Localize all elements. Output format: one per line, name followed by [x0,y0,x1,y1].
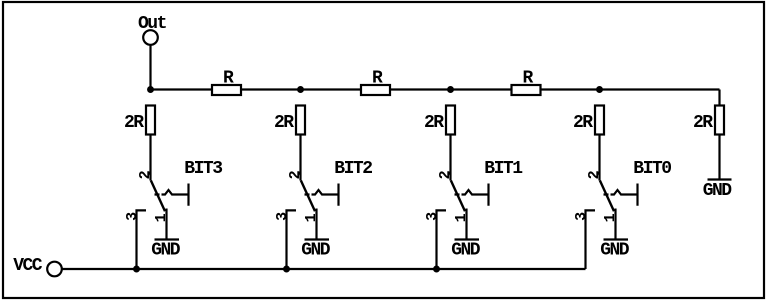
switch S3 (BIT1) lever and actuator [448,172,489,212]
svg-text:BIT2: BIT2 [334,159,372,179]
svg-text:2: 2 [586,170,603,179]
node A junction dot [147,86,154,93]
svg-text:GND: GND [600,240,630,260]
resistor 2R (column 2) [274,106,305,135]
wire VCC rail [62,268,586,270]
wire switch S3 pin 3 to VCC rail [437,210,447,269]
wire node to switch S4 pin 2 [598,136,600,181]
svg-text:3: 3 [124,212,141,221]
switch S4 (BIT0) lever and actuator [597,172,638,212]
svg-text:3: 3 [424,212,441,221]
wire node to switch S1 pin 2 [149,136,151,181]
svg-text:2R: 2R [693,113,713,133]
switch S2 (BIT2) lever and actuator [298,172,339,212]
ground (under S1) [151,240,181,261]
VCC rail junction dot 2 [283,266,290,273]
resistor 2R (column 5) [693,106,724,135]
port VCC [13,256,62,277]
ground (under S2) [301,240,331,261]
wire node to switch S3 pin 2 [449,136,451,181]
svg-text:BIT1: BIT1 [484,159,523,179]
svg-text:2R: 2R [274,113,294,133]
svg-text:Out: Out [138,14,167,34]
svg-text:2: 2 [137,170,154,179]
switch S1 (BIT3) lever and actuator [148,172,189,212]
svg-text:3: 3 [274,212,291,221]
svg-text:GND: GND [301,240,331,260]
svg-text:BIT0: BIT0 [633,159,671,179]
port Out [138,14,167,45]
svg-text:2R: 2R [573,113,593,133]
resistor 2R (column 3) [424,106,455,135]
svg-text:2R: 2R [424,113,444,133]
svg-text:2R: 2R [124,113,144,133]
wire switch S1 pin 3 to VCC rail [137,210,147,269]
resistor R (series 2) [361,69,390,96]
wire switch S4 pin 3 to VCC rail [586,210,596,269]
svg-text:VCC: VCC [13,256,43,276]
ground (terminator) [703,180,733,202]
ground (under S4) [600,240,630,261]
node D junction dot [596,86,603,93]
node B junction dot [297,86,304,93]
resistor 2R (column 4) [573,106,604,135]
wire top rail drop to terminator 2R [718,90,720,107]
wire top rail [151,88,720,90]
resistor R (series 3) [512,69,541,96]
svg-text:GND: GND [703,181,733,201]
resistor 2R (column 1) [124,106,155,135]
wire switch S4 pin 1 to ground [614,209,616,240]
svg-text:BIT3: BIT3 [184,159,222,179]
wire switch S1 pin 1 to ground [165,209,167,240]
svg-text:3: 3 [573,212,590,221]
resistor R (series 1) [212,69,241,96]
ground (under S3) [451,240,481,261]
svg-text:2: 2 [437,170,454,179]
wire switch S2 pin 1 to ground [315,209,317,240]
svg-text:2: 2 [287,170,304,179]
svg-text:GND: GND [151,240,181,260]
wire switch S3 pin 1 to ground [465,209,467,240]
wire terminator 2R to ground [718,136,720,180]
svg-text:GND: GND [451,240,481,260]
VCC rail junction dot 1 [133,266,140,273]
wire Out to node A [149,45,151,90]
wire node to switch S2 pin 2 [299,136,301,181]
VCC rail junction dot 3 [433,266,440,273]
wire switch S2 pin 3 to VCC rail [287,210,297,269]
node C junction dot [447,86,454,93]
